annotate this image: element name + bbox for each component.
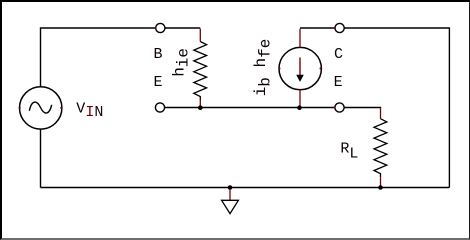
lead RL top <box>380 108 382 119</box>
resistor RL <box>374 119 387 178</box>
svg-text:E: E <box>154 74 163 91</box>
terminal C <box>334 23 346 32</box>
lead hie bottom <box>199 100 201 108</box>
svg-text:B: B <box>154 46 163 63</box>
wire node C to right rail <box>344 28 449 188</box>
ac source VIN <box>19 87 63 129</box>
svg-text:VIN: VIN <box>76 100 103 121</box>
wire E right to RL top <box>344 107 380 110</box>
svg-text:C: C <box>334 46 343 63</box>
terminal E right <box>334 103 346 112</box>
wire node B to resistor hie top <box>165 27 200 29</box>
terminal E left <box>155 103 166 112</box>
junction ground <box>228 185 233 190</box>
lead RL bottom <box>380 177 382 187</box>
terminal B <box>154 23 166 32</box>
ground lead <box>229 189 231 200</box>
junction current source/E row <box>297 105 302 110</box>
lead hie top <box>199 29 201 42</box>
resistor hie <box>194 42 207 100</box>
svg-text:ib hfe: ib hfe <box>252 39 275 97</box>
ground <box>222 200 239 213</box>
wire E row <box>165 107 335 109</box>
lead current source top <box>299 29 301 48</box>
lead current source bottom <box>299 90 301 108</box>
svg-text:RL: RL <box>340 141 358 163</box>
current source ib*hfe <box>278 47 321 89</box>
wire VIN bottom to ground rail <box>40 129 42 188</box>
bottom rail <box>41 187 450 189</box>
svg-text:E: E <box>334 74 343 91</box>
junction hie/E <box>198 105 203 110</box>
svg-text:hie: hie <box>171 48 193 77</box>
junction RL/bottom rail <box>378 185 383 190</box>
wire from VIN top to node B <box>41 28 156 87</box>
wire current source top to node C <box>300 27 335 29</box>
